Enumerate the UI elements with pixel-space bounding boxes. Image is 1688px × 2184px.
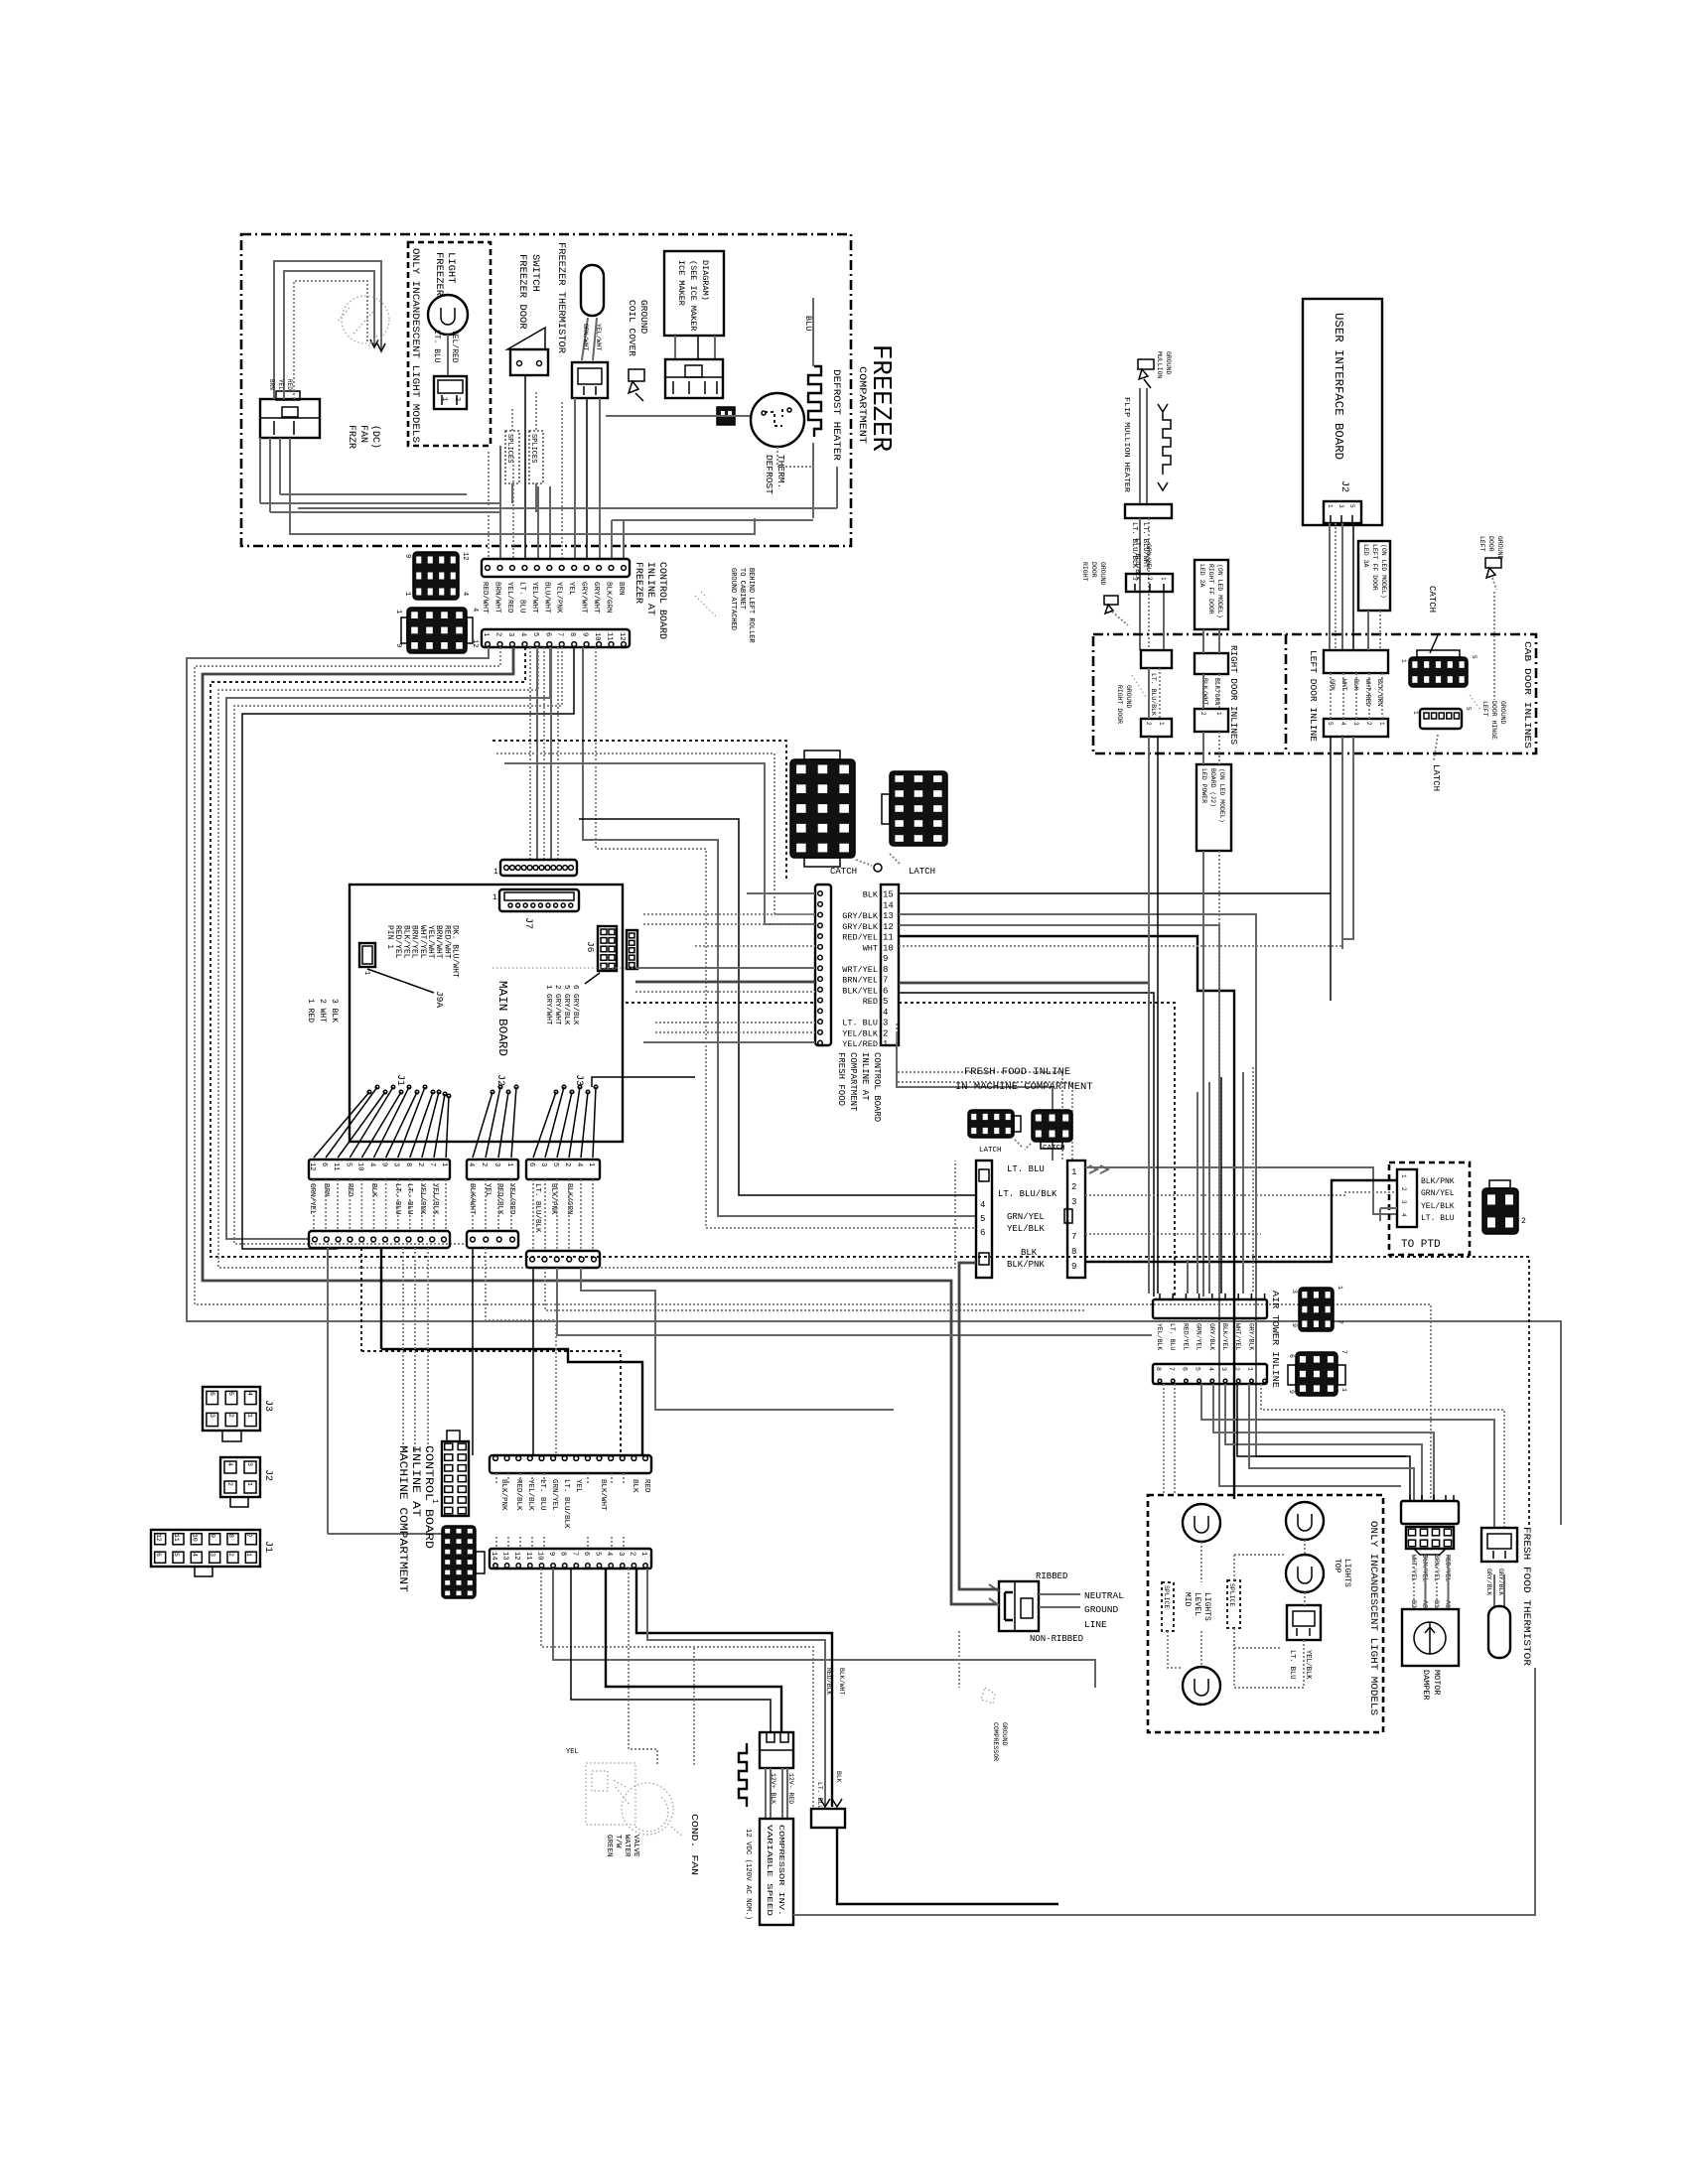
J1 inter-strip wires bbox=[313, 1179, 315, 1231]
svg-text:4: 4 bbox=[1339, 722, 1346, 726]
svg-text:LEFT: LEFT bbox=[1478, 536, 1485, 552]
svg-text:LT. BLU/BLK: LT. BLU/BLK bbox=[533, 1183, 541, 1233]
svg-text:LT. BLU/BLK: LT. BLU/BLK bbox=[1134, 538, 1141, 581]
svg-text:BRN/WHT: BRN/WHT bbox=[493, 582, 501, 614]
fresh food compartment inline left strip bbox=[815, 885, 831, 1045]
svg-text:3 BLK: 3 BLK bbox=[330, 999, 339, 1023]
svg-text:6: 6 bbox=[543, 632, 551, 636]
wire long hatched right bbox=[553, 1569, 1095, 1688]
svg-text:BRN/YEL: BRN/YEL bbox=[842, 976, 878, 986]
wires left door inline down bbox=[1330, 737, 1332, 1001]
svg-text:2: 2 bbox=[226, 1482, 233, 1486]
svg-text:SPLICE: SPLICE bbox=[1228, 1583, 1235, 1607]
svg-text:FLIP MULLION HEATER: FLIP MULLION HEATER bbox=[1122, 397, 1130, 493]
svg-text:LINE: LINE bbox=[1084, 1619, 1107, 1630]
wires inside lights box bbox=[1200, 1542, 1202, 1582]
svg-text:DOOR HINGE: DOOR HINGE bbox=[1490, 701, 1497, 740]
cond fan connector bbox=[760, 1732, 793, 1768]
svg-text:BLK/PNK: BLK/PNK bbox=[549, 1183, 557, 1215]
svg-text:GRY/WHT: GRY/WHT bbox=[580, 582, 588, 614]
svg-text:11: 11 bbox=[606, 632, 614, 640]
svg-text:LT. BLU/BLK: LT. BLU/BLK bbox=[998, 1189, 1057, 1199]
svg-text:1: 1 bbox=[430, 1499, 439, 1504]
svg-text:12V+ BLK: 12V+ BLK bbox=[770, 1773, 776, 1804]
svg-text:5 GRY/BLK: 5 GRY/BLK bbox=[562, 985, 570, 1025]
svg-text:GROUND: GROUND bbox=[1499, 701, 1506, 725]
svg-text:7: 7 bbox=[883, 976, 888, 986]
connector FREEZER INLINE upper strip bbox=[482, 559, 630, 577]
svg-text:GROUND: GROUND bbox=[1099, 562, 1106, 586]
wire to PTD pin3 bbox=[1380, 1207, 1397, 1209]
svg-text:SWITCH: SWITCH bbox=[529, 254, 541, 292]
damper harness connector bbox=[1401, 1501, 1459, 1524]
svg-text:8: 8 bbox=[227, 1534, 234, 1538]
svg-text:COMPRESSOR: COMPRESSOR bbox=[992, 1722, 999, 1761]
machine inline dark connector block bbox=[442, 1526, 476, 1598]
svg-text:7: 7 bbox=[1071, 1232, 1076, 1242]
svg-text:AIR TOWER INLINE: AIR TOWER INLINE bbox=[1270, 1291, 1281, 1388]
svg-text:5: 5 bbox=[1465, 707, 1472, 711]
svg-text:SPLICES: SPLICES bbox=[529, 434, 537, 463]
svg-text:RED/YEL: RED/YEL bbox=[842, 933, 878, 943]
svg-text:GRN/WHT: GRN/WHT bbox=[582, 324, 589, 350]
right door 3-pin connector above box bbox=[1126, 574, 1173, 592]
MAIN BOARD box bbox=[350, 885, 623, 1142]
svg-text:6 GRY/BLK: 6 GRY/BLK bbox=[571, 985, 579, 1025]
flip mullion connector bbox=[1125, 504, 1172, 518]
svg-text:5: 5 bbox=[883, 997, 888, 1007]
connector J2 (cabinet) bbox=[220, 1457, 260, 1497]
svg-text:5: 5 bbox=[1195, 1367, 1201, 1371]
defrost heater resistor bbox=[808, 366, 821, 437]
connector J1 (cabinet) bbox=[151, 1530, 260, 1567]
svg-text:12: 12 bbox=[512, 1552, 520, 1560]
wire hatched pair to inlet valve bbox=[647, 1569, 825, 1807]
wire bus left nest 1 bbox=[187, 647, 1561, 1525]
svg-text:TO CABINET: TO CABINET bbox=[738, 568, 746, 610]
svg-text:4: 4 bbox=[461, 592, 469, 596]
svg-text:LED 2A: LED 2A bbox=[1198, 564, 1205, 588]
svg-text:J6: J6 bbox=[585, 941, 596, 953]
damper motor box bbox=[1402, 1609, 1459, 1666]
fresh food inline catch connector (dark) bbox=[1032, 1110, 1072, 1142]
flip mullion heater resistor bbox=[1158, 404, 1171, 490]
svg-text:1: 1 bbox=[883, 1039, 888, 1049]
svg-text:LT. BLU: LT. BLU bbox=[517, 582, 525, 614]
wires LED box to connectors bbox=[1202, 629, 1204, 653]
svg-text:FRESH FOOD INLINE: FRESH FOOD INLINE bbox=[964, 1066, 1070, 1078]
svg-text:BLK/GRN: BLK/GRN bbox=[605, 582, 613, 614]
freezer compartment boundary bbox=[241, 234, 851, 546]
J3 fan-out wires bbox=[533, 1092, 556, 1158]
svg-text:J2: J2 bbox=[494, 1074, 505, 1086]
svg-text:3: 3 bbox=[539, 1162, 547, 1166]
svg-text:GROUND: GROUND bbox=[1496, 536, 1503, 560]
wire bus left nest 8 bbox=[242, 647, 574, 1249]
svg-text:YEL/WHT: YEL/WHT bbox=[426, 925, 435, 959]
svg-text:12: 12 bbox=[471, 639, 479, 647]
svg-text:RED/BLK: RED/BLK bbox=[514, 1479, 522, 1511]
svg-text:GRY/BLK: GRY/BLK bbox=[1208, 1323, 1215, 1350]
svg-text:2: 2 bbox=[1071, 1182, 1076, 1192]
plug feed wires bbox=[989, 1584, 999, 1605]
svg-text:1 GRY/WHT: 1 GRY/WHT bbox=[544, 985, 552, 1025]
svg-text:RED/WHT: RED/WHT bbox=[481, 582, 489, 614]
dashed box ONLY INCANDESCENT LIGHT MODELS (freezer) bbox=[408, 242, 491, 446]
LED POWER BOARD box bbox=[1196, 764, 1231, 851]
svg-text:DEFROST HEATER: DEFROST HEATER bbox=[830, 369, 841, 461]
J6 pin labels bbox=[585, 973, 600, 984]
left door ground clip bbox=[1485, 558, 1501, 578]
svg-text:1: 1 bbox=[1071, 1167, 1076, 1177]
wires damper connector to motor bbox=[1413, 1555, 1415, 1609]
svg-text:YEL/BLK: YEL/BLK bbox=[1007, 1224, 1045, 1234]
wire bus left nest 3 bbox=[203, 647, 999, 1604]
svg-text:YEL/BLK: YEL/BLK bbox=[431, 1183, 439, 1215]
connector block (dark) 12-pin lower bbox=[407, 608, 467, 653]
svg-text:CATCH: CATCH bbox=[1427, 586, 1437, 613]
svg-text:FRESH FOOD THERMISTOR: FRESH FOOD THERMISTOR bbox=[1520, 1527, 1531, 1666]
svg-text:GRY/BLK: GRY/BLK bbox=[842, 911, 879, 921]
wire drop to J7 strip bbox=[529, 647, 531, 860]
svg-text:2: 2 bbox=[494, 632, 502, 636]
wire to water valve left bbox=[629, 1569, 657, 1765]
svg-text:4: 4 bbox=[575, 1162, 583, 1166]
connector strip J2 (numbered) bbox=[467, 1160, 518, 1179]
splice columns in freezer bbox=[505, 431, 519, 483]
svg-text:1: 1 bbox=[1412, 711, 1419, 715]
svg-text:INLINE AT: INLINE AT bbox=[644, 562, 655, 615]
svg-text:7: 7 bbox=[245, 1534, 252, 1538]
svg-text:RED: RED bbox=[642, 1479, 650, 1493]
dashed box ONLY INCANDESCENT LIGHT MODELS (fresh food) bbox=[1148, 1495, 1383, 1732]
svg-text:5: 5 bbox=[594, 1552, 602, 1556]
svg-text:6: 6 bbox=[1288, 1354, 1295, 1358]
cond fan (dashed art) bbox=[622, 1783, 673, 1835]
svg-text:DOOR: DOOR bbox=[1487, 536, 1494, 552]
freezer light bulb bbox=[428, 295, 468, 335]
USER INTERFACE BOARD box bbox=[1303, 299, 1382, 525]
svg-text:1: 1 bbox=[246, 1414, 253, 1418]
svg-text:J3: J3 bbox=[262, 1400, 273, 1412]
svg-text:4: 4 bbox=[883, 1008, 888, 1018]
svg-text:9: 9 bbox=[1071, 1262, 1076, 1272]
svg-text:LEFT DOOR INLINE: LEFT DOOR INLINE bbox=[1308, 650, 1318, 742]
svg-text:LT. BLU: LT. BLU bbox=[842, 1019, 878, 1028]
svg-text:8: 8 bbox=[1155, 1367, 1162, 1371]
svg-text:YEL/PNK: YEL/PNK bbox=[555, 582, 563, 614]
svg-text:BLK: BLK bbox=[631, 1479, 638, 1493]
svg-text:2: 2 bbox=[1400, 1187, 1407, 1191]
svg-text:LEFT: LEFT bbox=[1481, 701, 1488, 717]
label J9A with leader bbox=[367, 969, 434, 993]
svg-text:1: 1 bbox=[1215, 712, 1222, 716]
machine compartment inline lower strip (numbered) bbox=[490, 1549, 651, 1569]
svg-text:FRZR: FRZR bbox=[346, 425, 356, 449]
wire to cond fan pin2 bbox=[571, 1569, 771, 1732]
svg-text:BRN: BRN bbox=[322, 1183, 330, 1197]
wire bus left nest 2 bbox=[195, 647, 1431, 1499]
latch connector (cab doors) bbox=[1420, 709, 1462, 729]
ice maker box bbox=[664, 251, 724, 336]
svg-text:6: 6 bbox=[582, 1552, 590, 1556]
splice column center bbox=[1227, 1580, 1240, 1628]
svg-text:1: 1 bbox=[639, 1552, 647, 1556]
wires J1 lower strip down bbox=[327, 1248, 329, 1534]
svg-text:2: 2 bbox=[480, 1162, 488, 1166]
wire to cond fan pin1 (thick) bbox=[606, 1569, 781, 1732]
svg-text:MID: MID bbox=[1183, 1592, 1192, 1607]
svg-text:LED POWER: LED POWER bbox=[1200, 768, 1207, 803]
ice maker connector bbox=[665, 359, 723, 398]
svg-text:5: 5 bbox=[344, 1162, 352, 1166]
svg-text:SPLICE: SPLICE bbox=[1163, 1585, 1170, 1609]
svg-text:WHT: WHT bbox=[863, 943, 878, 953]
svg-text:YEL/BLK: YEL/BLK bbox=[526, 1479, 534, 1511]
machine compartment inline upper strip bbox=[490, 1455, 651, 1473]
svg-text:9: 9 bbox=[380, 1162, 388, 1166]
svg-text:9: 9 bbox=[210, 1534, 216, 1538]
svg-text:ONLY INCANDESCENT LIGHT MODELS: ONLY INCANDESCENT LIGHT MODELS bbox=[1367, 1521, 1379, 1715]
svg-text:VALVE: VALVE bbox=[632, 1835, 639, 1857]
svg-text:2: 2 bbox=[1199, 712, 1206, 716]
svg-text:BLK: BLK bbox=[863, 890, 879, 900]
svg-text:1: 1 bbox=[440, 1162, 448, 1166]
svg-text:BOARD (J2): BOARD (J2) bbox=[1209, 768, 1216, 807]
svg-text:5: 5 bbox=[531, 632, 539, 636]
svg-text:YEL/BLK: YEL/BLK bbox=[1304, 1650, 1312, 1680]
svg-text:10: 10 bbox=[883, 943, 894, 953]
svg-text:5: 5 bbox=[980, 1214, 985, 1224]
PTD 4-pin connector (dark) bbox=[1482, 1188, 1518, 1234]
LEFT FF DOOR box bbox=[1358, 541, 1390, 611]
svg-text:5: 5 bbox=[1327, 722, 1334, 726]
svg-text:J2: J2 bbox=[262, 1469, 273, 1481]
freezer thermistor connector bbox=[572, 362, 608, 398]
svg-text:NON-RIBBED: NON-RIBBED bbox=[1030, 1634, 1083, 1644]
connector block (dark) 12-pin upper bbox=[413, 552, 459, 600]
svg-text:10: 10 bbox=[191, 1534, 198, 1542]
svg-text:GRY/WHT: GRY/WHT bbox=[592, 582, 600, 614]
freezer fan motor (dashed) bbox=[342, 296, 389, 343]
CAB DOOR INLINES boundary bbox=[1093, 634, 1536, 753]
svg-text:WHT/YEL: WHT/YEL bbox=[418, 925, 427, 959]
svg-text:MOTOR: MOTOR bbox=[1432, 1670, 1442, 1696]
svg-text:(DC): (DC) bbox=[369, 425, 381, 449]
svg-text:7: 7 bbox=[1336, 1320, 1343, 1324]
svg-text:1: 1 bbox=[1378, 722, 1385, 726]
svg-text:9: 9 bbox=[403, 554, 411, 558]
svg-text:3: 3 bbox=[209, 1414, 215, 1418]
fresh food inline right strip bbox=[1067, 1160, 1085, 1278]
svg-text:FREEZER THERMISTOR: FREEZER THERMISTOR bbox=[555, 242, 566, 353]
svg-text:BRN/WHT: BRN/WHT bbox=[434, 925, 443, 959]
wires left door inline bbox=[1367, 611, 1369, 650]
svg-text:7: 7 bbox=[1340, 1350, 1347, 1354]
wires flip mullion to door inline bbox=[1139, 518, 1141, 650]
svg-text:2: 2 bbox=[1521, 1217, 1526, 1226]
svg-text:LT. BLU: LT. BLU bbox=[432, 330, 441, 363]
svg-text:GRN/YEL: GRN/YEL bbox=[1145, 544, 1152, 571]
svg-text:8: 8 bbox=[883, 965, 888, 975]
svg-text:2: 2 bbox=[453, 397, 461, 401]
fresh food door catch connector (dark) bbox=[790, 759, 855, 858]
compressor ground bbox=[958, 1631, 960, 1688]
svg-text:3: 3 bbox=[506, 632, 514, 636]
svg-text:WRT/YEL: WRT/YEL bbox=[842, 965, 878, 975]
svg-text:DK. BLU/WHT: DK. BLU/WHT bbox=[451, 925, 460, 978]
svg-text:12 VDC (120V AC NOM.): 12 VDC (120V AC NOM.) bbox=[744, 1829, 752, 1920]
small connector strip above main board bbox=[500, 860, 577, 876]
air tower 9-pin connector upper (dark) bbox=[1299, 1288, 1334, 1331]
svg-text:GROUND: GROUND bbox=[638, 300, 649, 335]
wire runs along freezer bottom bbox=[259, 438, 261, 503]
connector right of J6 bbox=[627, 930, 637, 969]
svg-text:RED/BLK: RED/BLK bbox=[825, 1668, 832, 1695]
J1 fan-out wires bbox=[314, 1092, 369, 1158]
LED 2A RIGHT FF DOOR box bbox=[1195, 560, 1228, 629]
wires LED power board down to air tower bbox=[1202, 851, 1204, 1297]
svg-text:9: 9 bbox=[1291, 1323, 1298, 1327]
svg-text:12: 12 bbox=[461, 552, 469, 560]
svg-text:DAMPER: DAMPER bbox=[1421, 1670, 1431, 1701]
svg-text:8: 8 bbox=[568, 632, 576, 636]
svg-text:LATCH: LATCH bbox=[1431, 764, 1441, 791]
wire defrost therm to splice bbox=[606, 415, 750, 417]
machine inline white connector bbox=[442, 1441, 469, 1516]
svg-text:LT. BLU: LT. BLU bbox=[1421, 1214, 1455, 1223]
svg-text:2: 2 bbox=[628, 1552, 635, 1556]
svg-text:IN MACHINE COMPARTMENT: IN MACHINE COMPARTMENT bbox=[955, 1081, 1093, 1093]
svg-text:1 RED: 1 RED bbox=[306, 999, 315, 1023]
wire J3 pin to right edge bbox=[592, 1077, 695, 1087]
svg-text:LED 3A: LED 3A bbox=[1362, 544, 1369, 568]
svg-text:COMPARTMENT: COMPARTMENT bbox=[856, 366, 868, 444]
machine inline inter-strip wires bbox=[495, 1473, 497, 1484]
freezer door switch symbol bbox=[507, 328, 545, 349]
svg-text:(ON LED MODEL): (ON LED MODEL) bbox=[1216, 564, 1223, 618]
svg-text:2: 2 bbox=[227, 1553, 234, 1557]
svg-text:FRESH FOOD: FRESH FOOD bbox=[836, 1052, 846, 1106]
connector strip J1 (numbered) bbox=[309, 1160, 450, 1179]
svg-text:LT. BLU: LT. BLU bbox=[538, 1479, 546, 1511]
svg-text:3: 3 bbox=[210, 1553, 216, 1557]
svg-text:11: 11 bbox=[524, 1552, 532, 1560]
svg-text:13: 13 bbox=[501, 1552, 509, 1560]
svg-text:3: 3 bbox=[883, 1019, 888, 1028]
connector J7 bbox=[499, 889, 579, 911]
fresh food door latch connector (dark) bbox=[890, 771, 947, 846]
svg-text:MAIN BOARD: MAIN BOARD bbox=[495, 981, 509, 1056]
svg-text:J7: J7 bbox=[522, 917, 533, 929]
svg-text:3: 3 bbox=[1352, 722, 1359, 726]
svg-text:3: 3 bbox=[1291, 1290, 1298, 1294]
lights connector bbox=[1287, 1605, 1321, 1640]
wire to inlet valve (dotted long) bbox=[541, 1569, 813, 1809]
right door LED connector upper bbox=[1195, 653, 1228, 674]
mullion ground clip bbox=[1138, 359, 1154, 379]
svg-text:DIAGRAM): DIAGRAM) bbox=[700, 260, 710, 301]
svg-text:PIN 1: PIN 1 bbox=[385, 925, 394, 949]
svg-text:YEL: YEL bbox=[484, 1183, 492, 1197]
svg-text:FREEZER DOOR: FREEZER DOOR bbox=[516, 254, 528, 330]
svg-text:YEL/RED: YEL/RED bbox=[842, 1039, 878, 1049]
svg-text:3: 3 bbox=[1400, 1200, 1407, 1204]
svg-text:1: 1 bbox=[1400, 659, 1407, 663]
svg-text:1: 1 bbox=[505, 1162, 513, 1166]
thick black wire from inlet valve to right bbox=[837, 1828, 1058, 1904]
svg-text:GROUND ATTACHED: GROUND ATTACHED bbox=[729, 568, 737, 630]
connector J9A bbox=[359, 943, 375, 967]
svg-text:LT. BLU: LT. BLU bbox=[816, 1782, 823, 1809]
svg-text:3: 3 bbox=[617, 1552, 625, 1556]
svg-text:LT. BLU/BLK: LT. BLU/BLK bbox=[1150, 673, 1157, 716]
svg-text:FREEZER: FREEZER bbox=[865, 344, 895, 452]
svg-text:LEFT FF DOOR: LEFT FF DOOR bbox=[1371, 544, 1378, 591]
svg-text:GRN/YEL: GRN/YEL bbox=[550, 1479, 558, 1511]
svg-text:BLK: BLK bbox=[369, 1183, 377, 1197]
connector strip J1 lower bbox=[309, 1231, 450, 1248]
svg-text:4: 4 bbox=[191, 1553, 198, 1557]
svg-text:6: 6 bbox=[320, 1162, 328, 1166]
svg-text:1: 1 bbox=[403, 592, 411, 596]
svg-text:YEL/WHT: YEL/WHT bbox=[595, 324, 602, 350]
wires right door inline bbox=[1148, 668, 1150, 719]
light bulb circles bbox=[1183, 1504, 1220, 1542]
svg-text:YEL/RED: YEL/RED bbox=[450, 330, 459, 363]
svg-text:1: 1 bbox=[440, 397, 448, 401]
svg-text:J3: J3 bbox=[573, 1074, 584, 1086]
svg-text:LATCH: LATCH bbox=[979, 1147, 1002, 1155]
svg-text:COIL COVER: COIL COVER bbox=[627, 300, 637, 356]
svg-text:5: 5 bbox=[551, 1162, 559, 1166]
svg-text:RIGHT: RIGHT bbox=[1081, 562, 1088, 582]
connector FREEZER INLINE lower strip bbox=[482, 629, 630, 647]
svg-text:2 GRY/WHT: 2 GRY/WHT bbox=[553, 985, 561, 1025]
svg-text:3: 3 bbox=[392, 1162, 400, 1166]
svg-text:BLK/PNK: BLK/PNK bbox=[499, 1479, 507, 1511]
compressor output hatched wire bbox=[793, 1668, 1535, 1915]
svg-text:J2: J2 bbox=[1338, 480, 1349, 492]
wire freezer strip to fresh food inline (2) bbox=[596, 647, 976, 1228]
svg-text:1: 1 bbox=[1246, 1367, 1253, 1371]
cond fan wires down bbox=[765, 1768, 767, 1819]
svg-text:1: 1 bbox=[1336, 1286, 1343, 1290]
svg-text:CAB DOOR INLINES: CAB DOOR INLINES bbox=[1522, 641, 1533, 749]
svg-text:YEL/BLK: YEL/BLK bbox=[842, 1028, 879, 1038]
svg-text:J1: J1 bbox=[394, 1074, 405, 1086]
wire frzr fan feed 3 bbox=[294, 281, 367, 399]
svg-text:T/W: T/W bbox=[614, 1835, 622, 1848]
wire thick to inlet valve connector bbox=[636, 1569, 832, 1807]
svg-text:7: 7 bbox=[570, 1552, 578, 1556]
svg-text:RED/YEL: RED/YEL bbox=[1182, 1323, 1189, 1350]
svg-text:LATCH: LATCH bbox=[909, 867, 935, 877]
wires ice maker to connector bbox=[674, 336, 676, 359]
wire BLU to defrost heater bbox=[812, 298, 814, 366]
wire frzr fan feed 1 bbox=[274, 261, 381, 399]
svg-text:GRN/YEL: GRN/YEL bbox=[1421, 1189, 1455, 1198]
svg-text:LT. BLU: LT. BLU bbox=[1288, 1650, 1296, 1679]
svg-text:BLK: BLK bbox=[1021, 1248, 1038, 1258]
arrow marks at fresh food inline bbox=[1089, 1165, 1108, 1173]
wires LED connector to LED power board bbox=[1202, 732, 1204, 764]
svg-text:WHT/RED: WHT/RED bbox=[1364, 679, 1371, 706]
svg-text:BRN: BRN bbox=[268, 379, 275, 390]
svg-text:1: 1 bbox=[587, 1162, 595, 1166]
fresh food inline latch connector (dark) bbox=[968, 1110, 1014, 1138]
svg-text:GROUND: GROUND bbox=[1001, 1722, 1008, 1746]
